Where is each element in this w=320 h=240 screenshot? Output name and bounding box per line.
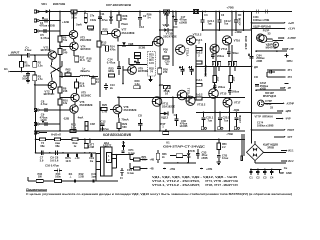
svg-text:VТ13.1, VТ13.2 - 2SА1ВЗТ,: VТ13.1, VТ13.2 - 2SА1ВЗТ, bbox=[152, 183, 200, 187]
transistor VT12.2 bbox=[186, 36, 195, 45]
wire bottom -70V rail bbox=[36, 130, 245, 132]
svg-text:1000uк х/70В: 1000uк х/70В bbox=[253, 18, 269, 22]
label VD1 bbox=[41, 2, 65, 6]
label C134 bbox=[257, 121, 274, 127]
rot label C22 bbox=[203, 64, 207, 77]
svg-text:КИ4742В: КИ4742В bbox=[53, 2, 65, 6]
relay coil C37 bbox=[84, 142, 94, 149]
wire bus x60 top bbox=[59, 12, 61, 32]
svg-text:0.47uк: 0.47uк bbox=[100, 127, 109, 131]
wire x196 vert drv bbox=[195, 45, 197, 98]
svg-text:+ЫП: +ЫП bbox=[288, 21, 294, 25]
svg-text:VТ13.2: VТ13.2 bbox=[197, 102, 206, 106]
resistor R25 bbox=[101, 103, 108, 113]
res block Ro3 bbox=[213, 76, 236, 83]
svg-text:-12В: -12В bbox=[63, 117, 69, 121]
svg-text:х50В: х50В bbox=[201, 156, 207, 160]
label heatsink bottom bbox=[103, 133, 132, 137]
wire x205 outb bbox=[204, 66, 206, 76]
wire VT7 emitter down bbox=[117, 38, 119, 42]
svg-text:100к: 100к bbox=[55, 175, 61, 179]
wire bus x251.5 bbox=[251, 12, 253, 144]
svg-text:Нч21чЛ: Нч21чЛ bbox=[51, 132, 61, 136]
resistor R9 bbox=[58, 35, 68, 42]
capacitor C24.1 bbox=[201, 11, 215, 31]
label C2P bbox=[265, 99, 272, 106]
svg-text:ДО: ДО bbox=[254, 65, 258, 69]
pot POD bbox=[164, 85, 171, 95]
svg-text:4.7к: 4.7к bbox=[38, 77, 44, 81]
wire R3 to right bbox=[34, 84, 49, 110]
wire VT2b down bbox=[51, 90, 53, 94]
label OPH bbox=[287, 59, 293, 63]
svg-text:7uк: 7uк bbox=[224, 118, 229, 122]
emitter resistor Re3.2 bbox=[195, 92, 203, 100]
term PROT bbox=[251, 129, 295, 132]
capacitor C9 bbox=[40, 112, 48, 126]
svg-text:4мА: 4мА bbox=[78, 116, 84, 120]
wire x243.5 vert bbox=[243, 12, 245, 32]
wire +40V rail bbox=[203, 29, 252, 31]
capacitor C7 series bbox=[25, 45, 33, 57]
label VT2 bbox=[44, 89, 55, 96]
svg-text:С13: С13 bbox=[139, 25, 144, 29]
term ST1 bbox=[283, 69, 293, 72]
svg-text:ВС550С: ВС550С bbox=[44, 92, 55, 96]
svg-text:0.1uк: 0.1uк bbox=[127, 171, 134, 175]
fuse FU1 on rail bbox=[193, 10, 199, 14]
capacitor C4 gnd bbox=[270, 168, 274, 179]
resistor R21 bbox=[91, 76, 99, 84]
label VD11 bbox=[163, 23, 170, 27]
wire U2.1 bbox=[264, 150, 295, 153]
ecap C29 bbox=[174, 113, 179, 126]
svg-text:VТ15: VТ15 bbox=[220, 92, 227, 96]
transistor VT3 bbox=[60, 30, 78, 38]
svg-text:+12В: +12В bbox=[62, 20, 69, 24]
svg-text:х100: х100 bbox=[40, 118, 47, 122]
mosfet VT1P bbox=[258, 100, 264, 106]
transistor VT18P bbox=[257, 34, 267, 43]
svg-text:-УР: -УР bbox=[287, 87, 291, 90]
ecap 200u b bbox=[227, 45, 239, 57]
svg-text:INPUT: INPUT bbox=[11, 51, 20, 55]
capacitor C8p bbox=[55, 151, 59, 163]
ecap mid bbox=[134, 59, 140, 65]
label +40V bbox=[234, 30, 242, 34]
svg-text:1W: 1W bbox=[38, 175, 42, 179]
ground R31 bbox=[148, 76, 152, 82]
svg-text:VД1Р 45Р52гВ: VД1Р 45Р52гВ bbox=[253, 25, 271, 29]
resistor R7 bbox=[58, 48, 68, 55]
transistor VT11drv bbox=[152, 97, 162, 107]
svg-text:0.47uк: 0.47uк bbox=[41, 36, 50, 40]
svg-text:VТ13.1: VТ13.1 bbox=[187, 87, 191, 96]
capacitor C32 bbox=[120, 168, 135, 180]
label 33 bbox=[268, 32, 271, 36]
wire psu right y152 bbox=[117, 154, 134, 156]
ecap C105 bbox=[255, 82, 269, 91]
wire VT14 collector bbox=[215, 12, 217, 45]
junction bus 45.8 bbox=[59, 45, 61, 47]
capacitor C2 gnd bbox=[256, 168, 260, 179]
label +12V bbox=[62, 20, 69, 24]
svg-text:331Р: 331Р bbox=[265, 102, 271, 106]
resistor R17 bbox=[75, 55, 85, 62]
wire x205 out bbox=[204, 43, 206, 67]
resistor pair mirror bbox=[85, 122, 95, 131]
label +70V bbox=[226, 5, 234, 9]
svg-text:5.6: 5.6 bbox=[50, 158, 54, 162]
junction dots rail top bbox=[99, 11, 244, 13]
emitter resistor Re3.1 bbox=[195, 78, 203, 86]
resistor R42 bbox=[72, 138, 78, 148]
capacitor C1 gnd bbox=[249, 168, 253, 179]
svg-text:х100В: х100В bbox=[238, 18, 242, 26]
capacitor small b2 bbox=[93, 179, 94, 182]
wire ATBP bbox=[273, 37, 296, 40]
wire -ULV bbox=[251, 110, 292, 114]
junction E1-R1 bbox=[21, 67, 23, 72]
wire psu y162.8 bbox=[164, 162, 196, 164]
ecap C17 bbox=[172, 11, 187, 29]
label VT11drv bbox=[162, 102, 175, 109]
svg-text:АЗТ4Р: АЗТ4Р bbox=[287, 102, 295, 105]
svg-text:1.5В: 1.5В bbox=[78, 175, 84, 179]
wire bus x60 lower bbox=[59, 97, 61, 131]
svg-text:И2.1: И2.1 bbox=[288, 150, 294, 153]
svg-text:СО: СО bbox=[238, 14, 242, 17]
svg-text:ЗТ2: ЗТ2 bbox=[288, 76, 293, 79]
svg-text:С2: С2 bbox=[256, 176, 260, 180]
transistor VT9m bbox=[123, 66, 136, 75]
svg-text:ЗС0В: ЗС0В bbox=[139, 46, 146, 50]
resistor R46 bbox=[156, 150, 167, 163]
svg-text:-ЦЛВ: -ЦЛВ bbox=[285, 110, 291, 113]
inductor L1 bbox=[80, 66, 90, 76]
resistor R35 body bbox=[55, 180, 62, 183]
res block Ro1 bbox=[211, 62, 221, 67]
label R34 bbox=[37, 172, 42, 179]
capacitor small f1 bbox=[257, 10, 259, 14]
pot P47 bbox=[160, 122, 168, 134]
resistor R41 bbox=[55, 138, 61, 148]
diode VD11 bbox=[160, 28, 173, 32]
svg-text:С?В: С?В bbox=[102, 110, 108, 114]
transistor VT16 bbox=[222, 36, 240, 45]
svg-text:GND: GND bbox=[286, 172, 292, 175]
junction psu x35.6 bbox=[35, 131, 37, 153]
note vt line1 bbox=[152, 179, 238, 183]
svg-text:VТ?4, VТ?В - МЫ2YYЗН: VТ?4, VТ?В - МЫ2YYЗН bbox=[205, 179, 238, 183]
wire out +UP bbox=[252, 21, 295, 25]
capacitor C12 bbox=[100, 119, 109, 131]
svg-text:-40В: -40В bbox=[233, 108, 240, 112]
svg-text:1R0: 1R0 bbox=[232, 76, 236, 81]
svg-text:Примечание: Примечание bbox=[26, 187, 47, 191]
svg-text:39мкГн: 39мкГн bbox=[80, 69, 90, 73]
wire out node right bbox=[245, 65, 252, 67]
cap small st bbox=[267, 70, 275, 73]
svg-text:3.9: 3.9 bbox=[40, 158, 44, 162]
svg-text:70мА: 70мА bbox=[121, 117, 128, 121]
svg-text:2SС2682Е: 2SС2682Е bbox=[124, 108, 137, 112]
transistor VT5 bbox=[60, 93, 79, 101]
svg-text:200uк: 200uк bbox=[232, 90, 240, 93]
big minus terminal bbox=[285, 83, 289, 85]
svg-text:R38: R38 bbox=[88, 28, 94, 32]
svg-text:2SС4793Е: 2SС4793Е bbox=[163, 34, 177, 38]
pad X5 bbox=[34, 123, 60, 126]
svg-text:470к: 470к bbox=[110, 48, 116, 52]
emitter resistor Re2.2 bbox=[195, 51, 203, 64]
resistor R10 on rail bbox=[71, 10, 77, 19]
capacitor small b1 bbox=[74, 179, 75, 182]
resistor R8 bbox=[58, 86, 68, 93]
resistor R40 bbox=[40, 138, 46, 148]
wire VT14 emitter bbox=[215, 53, 217, 61]
label -70V bbox=[226, 132, 233, 136]
label R35 bbox=[55, 172, 61, 179]
label 33b bbox=[270, 106, 273, 110]
resistor R36 bbox=[158, 67, 169, 74]
emitter resistor Re2.1 bbox=[195, 38, 203, 51]
pad X1 bbox=[34, 10, 39, 13]
wire out rail top bbox=[196, 65, 245, 67]
wire VT15 collector bbox=[214, 98, 216, 132]
term OUT bbox=[274, 136, 293, 139]
svg-text:-27В: -27В bbox=[170, 167, 176, 171]
wire right pair bbox=[241, 134, 244, 161]
svg-text:VД1, VД2, VД5, VД8, VД9 - VД12: VД1, VД2, VД5, VД8, VД9 - VД12, VДВ - Чи… bbox=[152, 175, 237, 179]
wire out rail bottom2 bbox=[196, 96, 245, 98]
label D0a bbox=[254, 65, 258, 69]
svg-text:СО: СО bbox=[138, 114, 142, 118]
resistor R29 bbox=[117, 122, 128, 131]
label VT9m bbox=[138, 66, 148, 73]
label -40V bbox=[233, 108, 240, 112]
wire VT6 down bbox=[73, 113, 75, 131]
svg-text:43: 43 bbox=[66, 70, 70, 74]
svg-text:Rэ3.2: Rэ3.2 bbox=[195, 92, 203, 96]
wire VT4 emitter down bbox=[73, 51, 75, 57]
wire x118.5 vert bbox=[118, 46, 145, 62]
svg-text:5ч: 5ч bbox=[147, 15, 150, 19]
wire psu +27V bbox=[200, 167, 212, 171]
svg-text:РВОТ: РВОТ bbox=[288, 129, 295, 132]
wire x172.8 lower bbox=[172, 96, 174, 113]
transistor VT14 bbox=[210, 44, 228, 53]
svg-text:IRF540Н: IRF540Н bbox=[263, 115, 273, 118]
wire VT5 leads bbox=[74, 102, 76, 105]
wire x123 bbox=[122, 66, 124, 84]
svg-text:М547VД44: М547VД44 bbox=[263, 94, 277, 98]
capacitor C25.2 bbox=[218, 111, 230, 129]
wire U2.2 bbox=[255, 160, 294, 163]
svg-text:АДТ7Т: АДТ7Т bbox=[103, 144, 112, 148]
resistor R37a bbox=[130, 155, 147, 162]
wire to +4V bbox=[140, 159, 154, 162]
svg-text:КТ9Р ЗР39: КТ9Р ЗР39 bbox=[244, 35, 248, 49]
capacitor C3 gnd bbox=[263, 168, 267, 179]
res block Ro2 bbox=[227, 62, 237, 67]
junction L1 right bbox=[89, 76, 98, 78]
svg-text:СО: СО bbox=[254, 75, 258, 79]
label C124 bbox=[253, 15, 269, 22]
ecap C33 bbox=[196, 149, 208, 160]
dashed box R31 bbox=[148, 52, 156, 77]
label 70mA bottom bbox=[121, 117, 128, 121]
wire -U4P bbox=[276, 118, 291, 121]
transistor VT6 bbox=[60, 105, 78, 113]
diode VD12 bbox=[160, 112, 169, 120]
label VD1P bbox=[253, 25, 271, 29]
svg-text:12к: 12к bbox=[63, 101, 68, 105]
ground C38 bbox=[217, 160, 221, 164]
diode VD7 bbox=[109, 11, 113, 24]
wire VT3-VT4 bbox=[73, 39, 76, 42]
transistor VT2 bbox=[48, 81, 57, 89]
label VT3 bbox=[80, 35, 92, 42]
svg-text:+4В: +4В bbox=[150, 159, 155, 162]
svg-text:С2: С2 bbox=[174, 113, 178, 117]
label VT6 bbox=[80, 100, 93, 107]
svg-text:VД12: VД12 bbox=[161, 115, 169, 119]
svg-text:+27В: +27В bbox=[206, 167, 212, 171]
capacitor C11 bbox=[98, 12, 108, 22]
svg-text:70мА: 70мА bbox=[121, 22, 128, 26]
label 4mA bbox=[78, 116, 84, 120]
label VT12.2 bbox=[193, 32, 202, 36]
capacitor C38 bbox=[217, 154, 229, 161]
resistor R19 bbox=[75, 79, 86, 94]
wire x159.8 lower bbox=[159, 97, 161, 132]
svg-text:430к: 430к bbox=[108, 69, 115, 73]
ecap 200u d bbox=[228, 88, 240, 95]
svg-text:ЗТ1: ЗТ1 bbox=[288, 69, 293, 72]
big plus terminal bbox=[284, 54, 288, 58]
svg-text:х100В: х100В bbox=[238, 115, 242, 123]
label VT8 bbox=[124, 105, 137, 112]
svg-text:2н: 2н bbox=[110, 87, 113, 90]
resistor R23 bbox=[108, 66, 115, 77]
svg-text:470uк х35В: 470uк х35В bbox=[39, 23, 55, 27]
svg-text:1R: 1R bbox=[227, 62, 231, 65]
svg-text:ЛСВ: ЛСВ bbox=[189, 149, 195, 153]
svg-text:31.6: 31.6 bbox=[79, 84, 85, 88]
bridge rectifier VD bbox=[247, 144, 264, 161]
svg-text:⊥Ю: ⊥Ю bbox=[74, 156, 79, 160]
pad X4 bbox=[34, 109, 61, 112]
capacitor C8 bbox=[41, 99, 49, 112]
svg-text:VТ7: VТ7 bbox=[122, 28, 127, 32]
wire out +U4 bbox=[251, 22, 296, 31]
capacitor C25.1 bbox=[201, 111, 213, 129]
terminal E1 bbox=[4, 67, 35, 72]
resistor R28 bbox=[117, 11, 128, 28]
label VT10 bbox=[163, 32, 177, 39]
svg-text:VТ14: VТ14 bbox=[221, 47, 228, 51]
label VD12P bbox=[263, 91, 277, 98]
capacitor C13b bbox=[104, 83, 115, 90]
resistor R11t bbox=[84, 12, 95, 18]
wire bridge top bbox=[252, 141, 256, 144]
resistor R20 bbox=[134, 79, 141, 89]
capacitor C2 bbox=[22, 72, 30, 81]
svg-text:200uк: 200uк bbox=[217, 55, 225, 58]
label D0b bbox=[254, 75, 258, 79]
svg-text:12.8: 12.8 bbox=[65, 159, 71, 163]
resistor R34 body bbox=[36, 180, 43, 183]
svg-text:0.47uк: 0.47uк bbox=[107, 60, 116, 64]
wire bottom row bbox=[28, 177, 118, 181]
label psu top bbox=[51, 132, 61, 136]
junction x159.8 y85 bbox=[159, 84, 163, 86]
transistor VT4 bbox=[60, 42, 78, 50]
svg-text:АчТВР: АчТВР bbox=[288, 37, 297, 40]
transistor VT13.1 bbox=[177, 87, 190, 100]
junction top-left bbox=[59, 11, 61, 13]
svg-text:5мА: 5мА bbox=[76, 22, 82, 26]
pad X6 bbox=[34, 131, 47, 134]
svg-text:ВС550С: ВС550С bbox=[41, 48, 52, 52]
label 5mA bbox=[76, 22, 82, 26]
svg-text:-70В: -70В bbox=[226, 132, 233, 136]
pad X3 bbox=[34, 30, 60, 33]
resistor R22 bbox=[101, 28, 108, 35]
svg-text:2SС2682: 2SС2682 bbox=[80, 38, 92, 42]
svg-text:5.1к: 5.1к bbox=[71, 15, 77, 19]
svg-text:51: 51 bbox=[164, 50, 168, 54]
svg-text:2.2: 2.2 bbox=[222, 146, 226, 149]
wire +UP2 bbox=[255, 48, 294, 52]
schematic background bbox=[0, 0, 296, 199]
wire bus x60 bbox=[59, 31, 61, 97]
wire VT3 collector to rail bbox=[73, 11, 75, 31]
svg-text:1б: 1б bbox=[165, 92, 169, 96]
svg-text:ВС560С: ВС560С bbox=[81, 93, 91, 97]
label C29b bbox=[91, 172, 96, 179]
svg-text:Р1?Р: Р1?Р bbox=[263, 28, 270, 32]
svg-text:27к: 27к bbox=[90, 13, 95, 17]
label -12V bbox=[63, 117, 69, 121]
svg-text:С12: С12 bbox=[100, 119, 106, 123]
resistor R24.1 bbox=[135, 53, 141, 59]
label R26 bbox=[147, 13, 152, 20]
wire psu -27V bbox=[163, 167, 175, 171]
wire bus x100 bbox=[99, 11, 101, 97]
ecap C104 bbox=[248, 54, 265, 63]
svg-text:Сн: Сн bbox=[284, 166, 288, 170]
svg-text:1.2к: 1.2к bbox=[134, 82, 140, 86]
capacitor C13t bbox=[138, 11, 147, 29]
note vd line bbox=[152, 175, 237, 179]
wire out rail bottom bbox=[118, 96, 196, 98]
transistor VT17 bbox=[223, 98, 241, 107]
svg-text:VТ12.1, VТ12.2 - 2SС4Т9З,: VТ12.1, VТ12.2 - 2SС4Т9З, bbox=[152, 179, 200, 183]
resistor R38 bbox=[87, 26, 94, 32]
wire cross X bbox=[51, 59, 62, 81]
label 70mA top bbox=[121, 22, 128, 26]
label VT7 bbox=[122, 28, 135, 36]
junction rail x85 bbox=[84, 11, 86, 13]
svg-text:ОРН: ОРН bbox=[287, 59, 293, 63]
wire bus x159.8 bbox=[159, 11, 161, 97]
svg-text:С целью улучшения вылота со-хр: С целью улучшения вылота со-хранения дио… bbox=[26, 192, 292, 196]
label VT1 bbox=[41, 45, 52, 52]
svg-text:5.6: 5.6 bbox=[55, 158, 59, 162]
capacitor C24.2 bbox=[217, 11, 231, 31]
